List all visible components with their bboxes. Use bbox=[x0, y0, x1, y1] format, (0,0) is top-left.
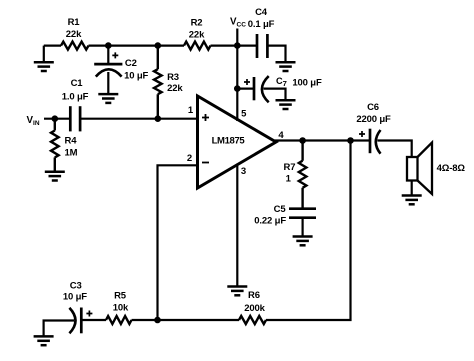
svg-text:200k: 200k bbox=[244, 303, 265, 314]
svg-text:1.0 μF: 1.0 μF bbox=[62, 92, 89, 103]
svg-text:R3: R3 bbox=[167, 72, 179, 83]
node bottom feedback junction bbox=[154, 317, 161, 324]
capacitor C1 bbox=[70, 106, 80, 131]
ground speaker bbox=[402, 196, 422, 205]
wire C2 stem bbox=[107, 46, 109, 65]
wire C7 to ground bbox=[264, 89, 286, 101]
svg-text:3: 3 bbox=[241, 166, 246, 177]
wire Vcc to C4 bbox=[237, 44, 257, 46]
wire Vin to C1 bbox=[44, 118, 70, 120]
svg-text:R6: R6 bbox=[248, 290, 260, 301]
node C6 feedback junction bbox=[347, 137, 354, 144]
svg-text:R1: R1 bbox=[68, 17, 81, 28]
wire Vcc stem bbox=[236, 29, 238, 122]
svg-text:R5: R5 bbox=[114, 291, 127, 302]
wire pin2 from op-amp bbox=[158, 165, 198, 320]
svg-text:C5: C5 bbox=[274, 204, 287, 215]
wire top rail left lead to R1 bbox=[44, 44, 61, 46]
wire C6 to speaker bbox=[378, 141, 412, 158]
wire R5 to C3 bbox=[81, 319, 106, 321]
node C2 junction bbox=[105, 42, 112, 49]
plus sign C2 bbox=[112, 52, 118, 58]
plus sign C6 bbox=[359, 131, 365, 137]
svg-text:10k: 10k bbox=[113, 302, 129, 313]
svg-text:1: 1 bbox=[286, 173, 292, 184]
ground C2 bbox=[98, 94, 118, 103]
svg-text:4: 4 bbox=[278, 130, 284, 141]
svg-text:100 μF: 100 μF bbox=[292, 78, 322, 89]
svg-text:C1: C1 bbox=[71, 78, 84, 89]
ground pin3 bbox=[227, 287, 247, 296]
wire R2 to Vcc node bbox=[211, 44, 238, 46]
plus sign C3 bbox=[86, 311, 92, 317]
svg-text:22k: 22k bbox=[167, 83, 183, 94]
speaker LS1 bbox=[407, 143, 432, 195]
svg-text:22k: 22k bbox=[66, 29, 82, 40]
capacitor C5 bbox=[289, 209, 316, 218]
ground C5 bbox=[293, 237, 313, 246]
resistor R7 bbox=[299, 141, 307, 209]
plus sign C7 bbox=[244, 79, 250, 85]
node C7 junction bbox=[234, 85, 241, 92]
svg-text:C4: C4 bbox=[255, 7, 268, 18]
wire C5 to ground bbox=[302, 218, 304, 237]
wire output pin4 bbox=[275, 139, 371, 141]
svg-text:0.22 μF: 0.22 μF bbox=[254, 216, 286, 227]
wire R1 to R2 along top rail bbox=[89, 44, 185, 46]
plus input marker bbox=[202, 114, 209, 121]
svg-text:1M: 1M bbox=[65, 147, 78, 158]
resistor R1 bbox=[61, 42, 89, 50]
wire R6 to bottom junction bbox=[132, 319, 240, 321]
node Vcc rail junction bbox=[234, 42, 241, 49]
wire speaker to ground bbox=[411, 181, 413, 196]
wire C7 junction to C7 bbox=[237, 87, 254, 89]
resistor R6 bbox=[239, 316, 266, 324]
wire C4 to ground bbox=[267, 46, 285, 63]
wire pin1 junction to op-amp bbox=[158, 118, 198, 120]
ground C3 bbox=[34, 336, 54, 345]
resistor R2 bbox=[184, 42, 211, 50]
wire pin3 to ground bbox=[236, 164, 238, 286]
svg-text:1: 1 bbox=[188, 105, 194, 116]
ground C4 bbox=[276, 62, 296, 71]
svg-text:10 μF: 10 μF bbox=[124, 70, 148, 81]
svg-text:10 μF: 10 μF bbox=[63, 291, 87, 302]
svg-text:0.1 μF: 0.1 μF bbox=[248, 19, 275, 30]
svg-text:LM1875: LM1875 bbox=[212, 135, 246, 146]
svg-text:2: 2 bbox=[187, 153, 192, 164]
node pin1 junction bbox=[155, 115, 162, 122]
svg-text:22k: 22k bbox=[189, 29, 205, 40]
svg-text:4Ω-8Ω: 4Ω-8Ω bbox=[437, 163, 466, 174]
wire C3 to ground bbox=[44, 321, 74, 337]
wire C2 to ground bbox=[107, 72, 109, 94]
svg-text:R7: R7 bbox=[284, 162, 296, 173]
resistor R4 bbox=[51, 119, 59, 172]
node R7 junction bbox=[299, 137, 306, 144]
svg-text:C2: C2 bbox=[125, 58, 137, 69]
capacitor C4 bbox=[257, 34, 267, 58]
capacitor C6 bbox=[370, 129, 381, 154]
capacitor C2 bbox=[94, 64, 122, 77]
resistor R5 bbox=[106, 316, 132, 324]
ground R4 bbox=[45, 172, 65, 181]
svg-text:C3: C3 bbox=[70, 281, 82, 292]
svg-text:C6: C6 bbox=[367, 102, 379, 113]
op-amp U1 LM1875 triangle bbox=[198, 96, 277, 188]
wire C1 to pin1 junction bbox=[80, 118, 158, 120]
wire feedback vertical bbox=[266, 141, 351, 321]
svg-text:R2: R2 bbox=[191, 17, 203, 28]
ground top-left bbox=[34, 62, 54, 71]
capacitor C7 bbox=[254, 76, 269, 102]
svg-text:2200 μF: 2200 μF bbox=[356, 114, 391, 125]
wire top-left ground stem bbox=[43, 46, 45, 63]
svg-text:5: 5 bbox=[241, 108, 247, 119]
node R3 top junction bbox=[155, 42, 162, 49]
svg-text:R4: R4 bbox=[65, 136, 78, 147]
minus input marker bbox=[202, 162, 209, 164]
ground C7 bbox=[276, 100, 296, 109]
capacitor C3 bbox=[69, 308, 81, 334]
resistor R3 bbox=[154, 46, 162, 119]
node R4 junction bbox=[52, 115, 59, 122]
